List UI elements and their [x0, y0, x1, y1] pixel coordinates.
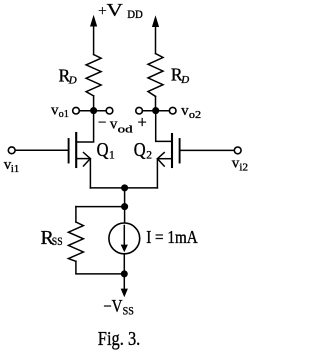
wire: RSS bottom lead: [76, 261, 124, 274]
terminal vo2: [169, 107, 176, 114]
svg-text:−: −: [98, 115, 106, 131]
wire: left resistor to drain node: [93, 96, 95, 111]
label Q2: [134, 140, 153, 162]
resistor RSS: [68, 222, 83, 261]
wire: right drain node horizontal to output terminals: [143, 110, 170, 112]
wire: RSS top lead: [75, 207, 77, 222]
svg-text:o2: o2: [189, 109, 201, 121]
label RD left: [59, 65, 77, 86]
label vi2: [232, 155, 248, 173]
svg-text:SS: SS: [123, 306, 134, 318]
label vo1: [51, 102, 69, 120]
wire: Q2 gate lead: [180, 149, 234, 151]
svg-text:2: 2: [146, 150, 152, 162]
wire: right resistor to drain node: [155, 96, 157, 110]
wire: common source down: [124, 188, 126, 207]
label vod differential: [98, 113, 147, 136]
node: bottom junction: [121, 270, 128, 277]
label vo2: [181, 103, 201, 121]
terminal vi1: [8, 147, 15, 154]
node: common source junction: [121, 184, 128, 191]
wire: Q1 drain lead: [76, 111, 93, 142]
svg-text:DD: DD: [127, 9, 143, 21]
terminal inner right (vod +): [136, 107, 143, 114]
terminal vi2: [234, 147, 241, 154]
wire: common source rail: [90, 187, 157, 189]
svg-text:od: od: [118, 123, 134, 135]
svg-text:V: V: [106, 0, 123, 20]
transistor Q2: [157, 134, 179, 167]
svg-text:D: D: [68, 75, 77, 87]
wire: Q2 source down: [156, 159, 158, 188]
node: right drain junction: [152, 107, 159, 114]
wire: tail to RSS branch: [76, 206, 125, 208]
node: left drain junction: [90, 107, 97, 114]
label +VDD: [98, 0, 143, 21]
current source I: [109, 223, 140, 254]
svg-text:Q: Q: [134, 140, 146, 161]
resistor RD right: [148, 54, 163, 97]
wire: VSS arrow: [121, 274, 128, 297]
svg-text:i1: i1: [11, 163, 19, 175]
svg-text:i2: i2: [239, 162, 248, 174]
svg-text:v: v: [110, 117, 118, 133]
label -VSS: [103, 296, 134, 318]
svg-text:+: +: [138, 113, 147, 132]
wire: tail to current source: [124, 207, 126, 223]
label RD right: [171, 65, 189, 87]
svg-text:Q: Q: [97, 140, 109, 161]
svg-text:SS: SS: [52, 236, 63, 248]
wire: VDD supply arrow left: [90, 15, 97, 55]
svg-text:I = 1mA: I = 1mA: [146, 227, 198, 247]
label Q1: [97, 140, 115, 162]
wire: Q2 drain lead: [156, 111, 172, 142]
resistor RD left: [86, 55, 101, 96]
svg-text:1: 1: [109, 150, 115, 162]
svg-text:D: D: [180, 74, 189, 86]
wire: VDD supply arrow right: [152, 15, 159, 53]
wire: left drain node horizontal to output terminals: [80, 110, 107, 112]
svg-text:o1: o1: [59, 108, 69, 120]
svg-text:−V: −V: [103, 296, 122, 316]
label vi1: [4, 157, 19, 175]
node: tail junction: [121, 203, 128, 210]
wire: current source bottom: [123, 254, 125, 274]
transistor Q1: [69, 133, 91, 167]
terminal inner left (vod -): [106, 107, 113, 114]
svg-text:Fig. 3.: Fig. 3.: [98, 328, 141, 350]
label RSS: [41, 227, 63, 249]
wire: Q1 source down: [89, 159, 91, 188]
svg-text:v: v: [181, 103, 189, 119]
wire: Q1 gate lead: [15, 149, 68, 151]
terminal vo1: [73, 107, 80, 114]
